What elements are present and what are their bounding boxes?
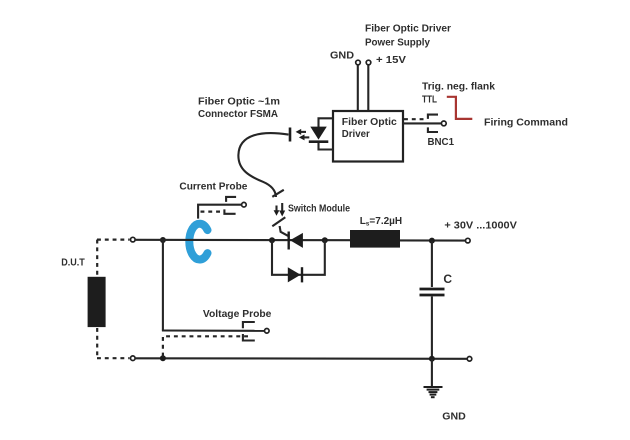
light emission arrow 2 <box>299 134 309 140</box>
svg-text:+ 15V: + 15V <box>376 55 406 66</box>
voltage probe tip bracket upper <box>243 322 255 328</box>
terminal circle top-left <box>131 237 136 242</box>
current transformer clamp (blue C) <box>189 224 207 260</box>
node junction +HV <box>429 238 435 244</box>
ground symbol bars <box>424 387 443 397</box>
node junction bottom-left <box>160 355 166 361</box>
wire driver box to LED anode <box>319 118 334 127</box>
svg-text:Connector FSMA: Connector FSMA <box>198 109 278 120</box>
LED D1 transmitter triangle <box>310 127 327 140</box>
wire GND supply to driver box <box>357 65 359 111</box>
light emission arrow 1 <box>296 129 306 135</box>
svg-text:Firing Command: Firing Command <box>484 118 568 129</box>
svg-text:Fiber Optic: Fiber Optic <box>342 117 397 128</box>
wire main bottom rail <box>136 357 467 360</box>
current probe connector circle <box>242 202 247 207</box>
wire freewheel branch <box>272 240 325 275</box>
svg-text:Fiber Optic Driver: Fiber Optic Driver <box>365 24 451 35</box>
terminal +15V circle <box>366 60 371 65</box>
thyristor V1 triangle <box>290 233 303 248</box>
label: Fiber Optic ~1m Connector FSMA <box>198 97 280 121</box>
wire dashed voltage probe ground link <box>163 336 250 356</box>
terminal circle +HV <box>466 238 471 243</box>
terminal circle bottom-right <box>467 357 472 362</box>
current probe tip bracket upper <box>226 197 236 202</box>
inductor L1 body <box>350 230 400 248</box>
wire left trunk down <box>162 240 164 331</box>
BNC1 tip bracket upper <box>428 115 438 119</box>
diode D2 cathode bar <box>301 267 303 282</box>
label: Fiber Optic Driver Power Supply title <box>365 24 451 49</box>
svg-text:D.U.T: D.U.T <box>61 258 84 269</box>
wire capacitor to bottom rail <box>431 297 433 359</box>
light direction arrow down 2 <box>279 203 285 217</box>
DUT body <box>88 277 106 327</box>
wire +15V supply to driver box <box>367 65 369 111</box>
svg-text:+ 30V ...1000V: + 30V ...1000V <box>444 220 517 231</box>
BNC1 connector circle <box>441 121 446 126</box>
op box: Fiber Optic Driver U1 <box>333 111 403 162</box>
terminal GND circle <box>356 60 361 65</box>
BNC1 tip bracket lower <box>428 127 438 132</box>
voltage probe connector circle <box>265 329 270 334</box>
current probe dashed link <box>201 211 225 213</box>
wire current probe lead <box>198 205 241 219</box>
TTL negative edge waveform (red) <box>447 97 473 119</box>
svg-text:Trig. neg. flank: Trig. neg. flank <box>422 81 495 92</box>
node junction top-left (x=163) <box>160 237 166 243</box>
capacitor C bottom plate <box>420 294 445 297</box>
capacitor C top plate <box>420 288 445 291</box>
wire main top rail <box>136 239 350 241</box>
svg-text:Driver: Driver <box>342 129 370 140</box>
svg-text:BNC1: BNC1 <box>428 137 455 148</box>
wire dashed DUT bottom lead <box>96 328 98 358</box>
node junction bottom-right <box>429 356 435 362</box>
voltage probe tip bracket lower <box>243 334 255 341</box>
LED D1 cathode bar <box>309 140 329 143</box>
fiber connector FSMA ferrule bar <box>289 128 292 142</box>
node junction thyristor left <box>269 237 275 243</box>
current probe tip bracket lower <box>224 209 235 213</box>
svg-text:TTL: TTL <box>422 95 437 106</box>
svg-text:GND: GND <box>442 412 466 423</box>
ground symbol lead <box>431 359 433 386</box>
svg-text:Current Probe: Current Probe <box>179 182 247 193</box>
wire dashed to bottom-left terminal <box>97 357 130 359</box>
fiber break slash lower <box>272 217 285 226</box>
wire dashed DUT top lead <box>96 240 98 276</box>
terminal circle bottom-left <box>131 356 136 361</box>
wire LED cathode to driver box <box>319 143 334 150</box>
wire fiber to thyristor gate <box>280 226 289 236</box>
fiber optic cable curve <box>238 133 288 197</box>
wire voltage probe lead <box>162 329 264 331</box>
thyristor V1 cathode bar <box>288 232 290 250</box>
wire inductor to +HV node <box>400 239 465 241</box>
diode D2 freewheel triangle <box>288 267 301 282</box>
node junction thyristor right <box>322 237 328 243</box>
fiber break slash upper <box>272 190 284 197</box>
svg-text:C: C <box>443 272 452 286</box>
BNC1 dashed trigger link <box>404 118 426 120</box>
svg-text:Power Supply: Power Supply <box>365 38 430 49</box>
label: Trig. neg. flank TTL <box>422 81 495 105</box>
svg-text:GND: GND <box>330 51 354 62</box>
light direction arrow down 1 <box>274 206 280 216</box>
wire BNC1 lead <box>403 122 441 124</box>
svg-text:Switch Module: Switch Module <box>288 204 350 215</box>
svg-text:Fiber Optic ~1m: Fiber Optic ~1m <box>198 97 280 108</box>
wire dashed to left terminal <box>97 239 130 241</box>
wire +HV node down to capacitor <box>431 241 433 287</box>
svg-text:Voltage Probe: Voltage Probe <box>203 309 272 320</box>
